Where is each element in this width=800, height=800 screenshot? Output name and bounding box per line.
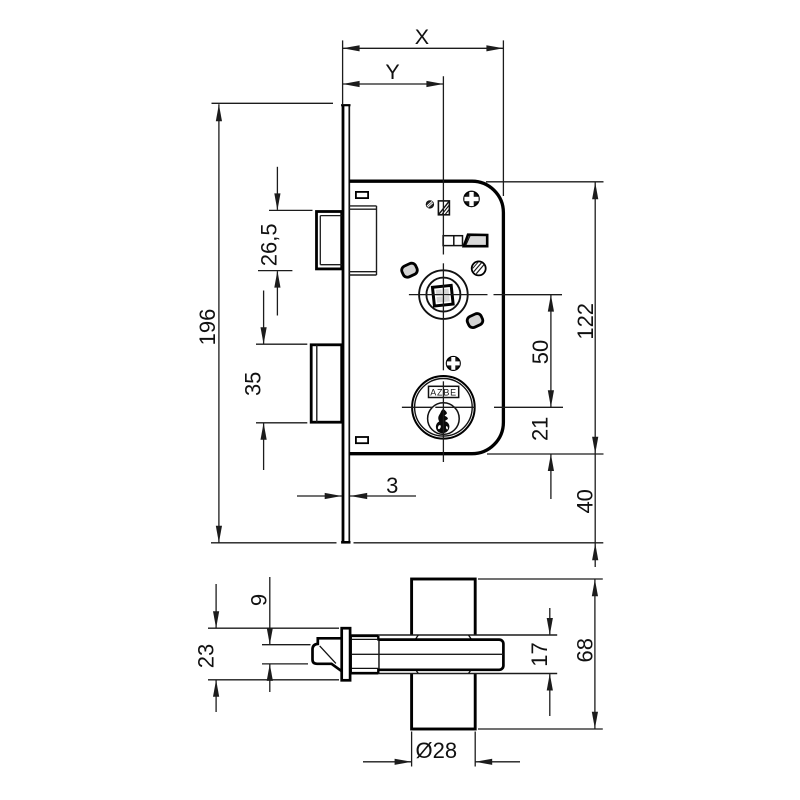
- svg-text:17: 17: [527, 642, 552, 666]
- svg-text:21: 21: [528, 417, 553, 441]
- svg-text:Ø28: Ø28: [416, 738, 458, 763]
- svg-text:9: 9: [246, 594, 271, 606]
- svg-text:68: 68: [572, 638, 597, 662]
- svg-text:26,5: 26,5: [257, 223, 282, 266]
- svg-text:23: 23: [194, 644, 219, 668]
- svg-text:50: 50: [528, 340, 553, 364]
- svg-text:Y: Y: [385, 60, 399, 84]
- svg-text:35: 35: [241, 372, 266, 396]
- svg-text:40: 40: [573, 489, 598, 513]
- svg-text:X: X: [415, 25, 429, 49]
- svg-text:3: 3: [386, 473, 398, 498]
- svg-text:196: 196: [195, 309, 220, 346]
- svg-text:122: 122: [573, 303, 598, 340]
